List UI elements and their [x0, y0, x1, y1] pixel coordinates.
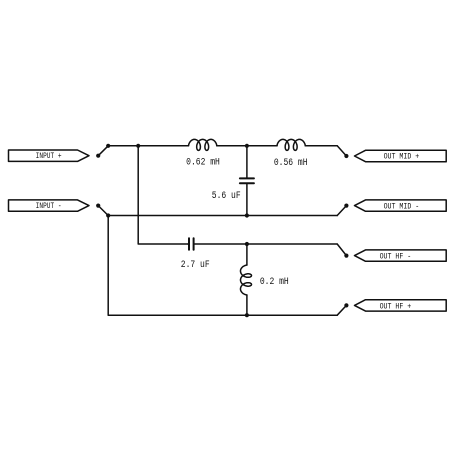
connector pin OUT HF + (slant and dot): [337, 303, 348, 315]
svg-text:OUT HF +: OUT HF +: [380, 303, 412, 312]
node junction top wire to 5.6uF branch: [245, 144, 249, 148]
wire 0.2mH branch lower: [246, 295, 248, 315]
wire bottom net to OUT HF +: [247, 314, 337, 316]
capacitor 5.6 uF: [240, 178, 254, 183]
node junction top wire to crossing vertical: [136, 144, 140, 148]
svg-text:OUT MID -: OUT MID -: [384, 203, 420, 212]
svg-text:2.7 uF: 2.7 uF: [181, 258, 210, 270]
connector pin INPUT + (dots and slant): [96, 144, 110, 158]
wire 2.7uF net left segment: [187, 243, 189, 245]
wire 5.6uF branch upper: [246, 146, 248, 178]
svg-text:INPUT +: INPUT +: [36, 153, 62, 162]
connector label OUT HF +: [355, 300, 447, 312]
connector label OUT MID -: [355, 200, 447, 212]
svg-text:0.56 mH: 0.56 mH: [274, 156, 308, 168]
wire mid net from INPUT- to OUT MID -: [108, 215, 337, 217]
connector pin INPUT - (dots and slant): [96, 204, 110, 218]
node junction 5.6uF to mid wire: [245, 213, 249, 217]
svg-text:INPUT -: INPUT -: [36, 203, 62, 212]
wire from L2 to OUT MID +: [305, 145, 337, 147]
wire top net from INPUT+ to L1: [108, 145, 188, 147]
node junction 2.7uF net to 0.2mH branch: [245, 242, 249, 246]
inductor 0.62 mH: [189, 139, 217, 150]
inductor 0.56 mH: [277, 139, 305, 150]
wire 5.6uF branch lower: [246, 184, 248, 215]
svg-text:OUT MID +: OUT MID +: [384, 153, 420, 162]
connector label INPUT -: [9, 200, 90, 212]
svg-text:OUT HF -: OUT HF -: [380, 253, 412, 262]
wire 2.7uF net right segment to OUT HF -: [195, 243, 338, 245]
svg-text:0.62 mH: 0.62 mH: [186, 155, 220, 167]
svg-text:0.2 mH: 0.2 mH: [260, 275, 289, 287]
wire 0.2mH branch upper: [246, 244, 248, 265]
connector label INPUT +: [9, 150, 90, 162]
inductor 0.2 mH: [241, 265, 252, 295]
node junction 0.2mH to bottom net: [245, 313, 249, 317]
connector label OUT MID +: [355, 150, 447, 161]
wire between L1 and L2: [217, 145, 277, 147]
svg-text:5.6 uF: 5.6 uF: [212, 189, 241, 201]
connector label OUT HF -: [355, 250, 447, 262]
capacitor 2.7 uF: [189, 238, 194, 250]
wire vertical from top net down to 2.7uF net: [138, 146, 188, 244]
wire vertical from INPUT- down to bottom net: [108, 216, 247, 316]
connector pin OUT MID + (slant and dot): [337, 146, 348, 158]
connector pin OUT HF - (slant and dot): [337, 244, 348, 258]
connector pin OUT MID - (slant and dot): [337, 204, 348, 216]
